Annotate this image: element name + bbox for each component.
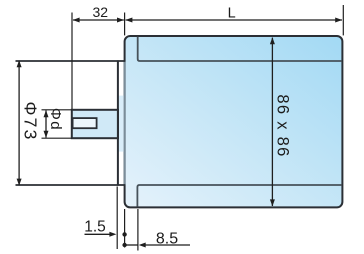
dim 86x86 line <box>271 38 273 206</box>
dim L extension right <box>342 5 344 35</box>
dim 1.5 terminator dot <box>122 232 126 236</box>
dim diad extension bottom <box>42 137 72 139</box>
flange bottom edge / dia73 bottom extension <box>16 184 125 186</box>
svg-text:86 x 86: 86 x 86 <box>273 94 291 157</box>
motor body <box>125 36 343 207</box>
dim 32 extension right (shared with L) <box>124 13 126 36</box>
dim dia73 line <box>18 61 20 185</box>
dim 8.5 line <box>125 244 139 246</box>
shaft <box>72 110 118 138</box>
front end cap inner line (bottom) <box>137 185 341 207</box>
dim 8.5 arrow + tail <box>139 243 146 248</box>
front end cap inner line (top) <box>138 37 342 61</box>
dim 1.5 extension B (body face) <box>124 209 126 248</box>
svg-text:Φ73: Φ73 <box>21 101 41 141</box>
pilot boss <box>117 96 124 152</box>
dim L line <box>126 19 342 21</box>
dim diad extension top <box>42 109 72 111</box>
flange top edge / dia73 top extension <box>16 60 125 62</box>
flange face line <box>117 60 119 185</box>
svg-text:8.5: 8.5 <box>156 231 178 248</box>
svg-text:L: L <box>228 5 236 21</box>
svg-text:32: 32 <box>93 4 109 20</box>
dim 1.5 extension A (flange face) <box>116 187 118 250</box>
svg-text:Φd: Φd <box>47 108 64 131</box>
dim 1.5 leader <box>85 233 111 235</box>
body left edge (faint section behind flange) <box>124 62 126 184</box>
svg-text:1.5: 1.5 <box>84 218 106 235</box>
dim 32 line <box>73 19 124 21</box>
dim 8.5 extension C (end cap line) <box>137 209 139 251</box>
dim diad line <box>45 110 47 137</box>
dim 32 extension left <box>71 13 73 110</box>
dim 8.5 terminator dot <box>122 243 126 247</box>
keyway flat <box>73 118 97 128</box>
